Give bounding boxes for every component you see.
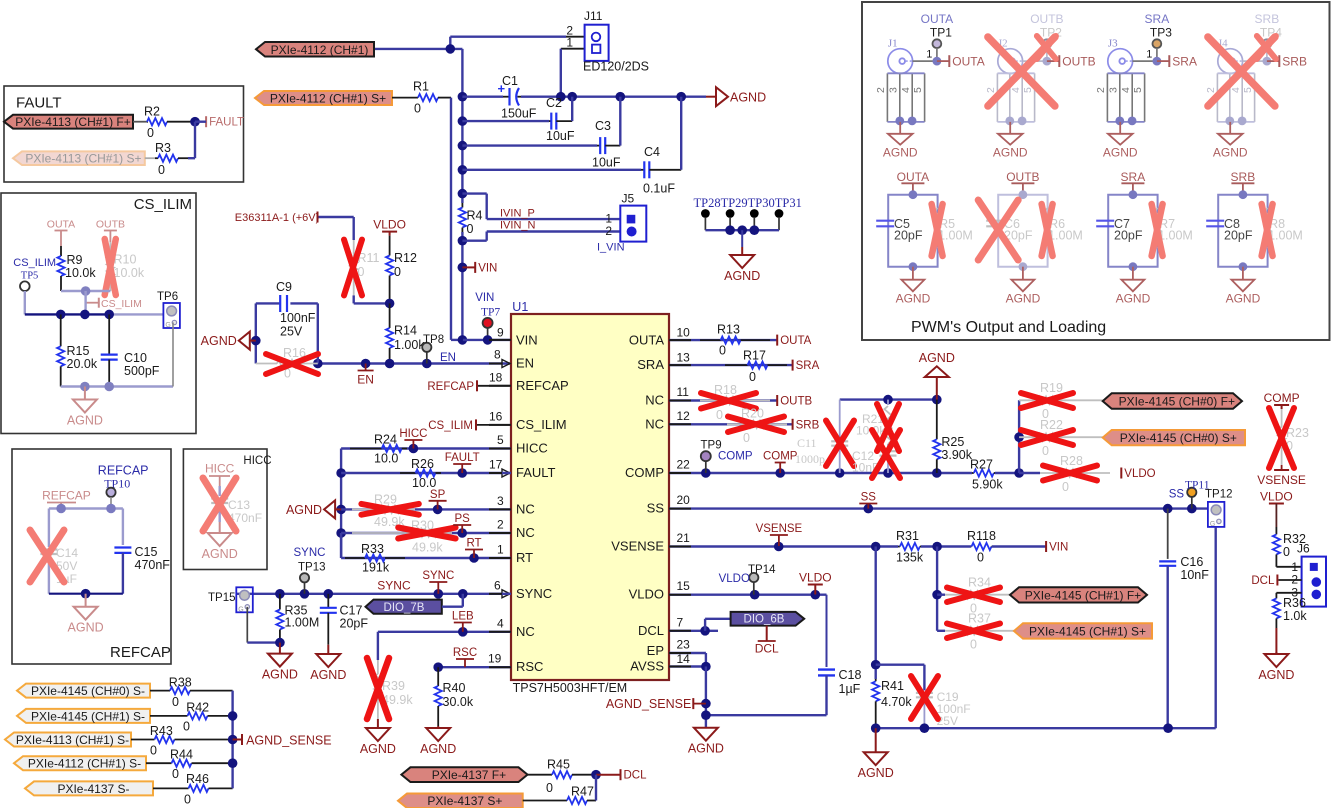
net label SRB — [793, 419, 820, 432]
ground AGND — [1258, 652, 1294, 682]
capacitor C10 — [101, 314, 160, 386]
svg-text:C16: C16 — [1180, 555, 1203, 569]
vertical VIN bus — [461, 49, 463, 203]
connector J3 coax — [1108, 38, 1133, 74]
svg-text:AGND: AGND — [420, 742, 456, 756]
svg-text:R42: R42 — [186, 700, 209, 714]
ground AGND — [912, 267, 914, 280]
svg-text:0: 0 — [158, 163, 165, 177]
svg-text:R45: R45 — [547, 758, 570, 772]
wire J3 shield to ground — [1115, 117, 1124, 126]
resistor R9 — [57, 246, 96, 291]
resistor R118 — [967, 529, 996, 565]
ground AGND — [858, 728, 894, 780]
svg-text:3: 3 — [887, 87, 899, 93]
resistor R29 — [352, 492, 415, 529]
ground AGND — [420, 726, 456, 756]
wire to J11 pin 2 — [449, 37, 451, 49]
svg-text:0: 0 — [1283, 545, 1290, 559]
wire R37 row — [937, 630, 945, 632]
not-populated X mark — [266, 354, 318, 374]
capacitor C17 — [320, 594, 369, 645]
junction dots on bus — [458, 92, 468, 102]
svg-text:TP15: TP15 — [208, 592, 236, 604]
wire to DIO_6B — [704, 619, 706, 631]
ground AGND — [360, 719, 396, 756]
ground AGND (left arrow) — [286, 500, 341, 518]
svg-text:R40: R40 — [443, 681, 466, 695]
test point TP5 — [20, 281, 30, 291]
resistor R5 ghost — [934, 208, 941, 248]
svg-text:AGND: AGND — [286, 503, 322, 517]
svg-text:COMP: COMP — [718, 451, 753, 463]
label PXIe-4113 (CH#1) S+ — [13, 151, 145, 165]
svg-text:OUTA: OUTA — [897, 170, 929, 184]
not-populated X mark — [398, 528, 455, 539]
not-populated X mark — [932, 204, 943, 256]
svg-text:R22: R22 — [1040, 418, 1063, 432]
svg-text:3.90k: 3.90k — [941, 448, 972, 462]
resistor R25 — [933, 400, 973, 473]
svg-text:OUTA: OUTA — [952, 54, 984, 68]
svg-text:E36311A-1 (+6V): E36311A-1 (+6V) — [235, 212, 319, 224]
svg-text:FAULT: FAULT — [445, 452, 480, 464]
resistor R36 — [1273, 593, 1308, 628]
net label VIN — [1046, 541, 1068, 554]
svg-text:23: 23 — [677, 638, 691, 652]
ground AGND — [1009, 122, 1011, 134]
net label VSENSE — [756, 523, 803, 546]
wire VSENSE row pin21 — [669, 545, 898, 547]
svg-text:R34: R34 — [968, 576, 991, 590]
svg-text:CS_ILIM: CS_ILIM — [13, 257, 56, 269]
bottom rail — [876, 727, 1216, 729]
svg-text:REFCAP: REFCAP — [516, 378, 569, 393]
ground AGND — [899, 122, 901, 134]
wire IVIN_P loop — [462, 192, 486, 194]
svg-text:R43: R43 — [150, 724, 173, 738]
svg-text:0: 0 — [719, 344, 726, 358]
resistor R38 — [150, 675, 233, 709]
net label REFCAP (pin 18) — [477, 385, 511, 387]
svg-text:1.0k: 1.0k — [1283, 609, 1307, 623]
collector bus — [231, 691, 233, 789]
svg-text:30.0k: 30.0k — [443, 695, 474, 709]
box FAULT — [4, 86, 244, 182]
svg-text:SRA: SRA — [1121, 170, 1146, 184]
svg-text:SYNC: SYNC — [294, 547, 326, 559]
svg-text:NC: NC — [516, 525, 535, 540]
svg-text:0: 0 — [147, 126, 154, 140]
svg-text:10.0: 10.0 — [374, 452, 398, 466]
svg-text:R4: R4 — [467, 209, 483, 223]
not-populated X mark — [105, 239, 116, 295]
wire VLDO to R32 — [1275, 504, 1277, 528]
wire J4 shield to ground — [1225, 117, 1234, 126]
resistor R32 — [1273, 527, 1306, 567]
net label VSENSE below R23 — [1274, 469, 1289, 471]
input arrow pin 8 — [502, 360, 510, 368]
wire TP10 down — [110, 497, 112, 509]
svg-text:10.0k: 10.0k — [65, 266, 96, 280]
ground AGND — [1022, 267, 1024, 280]
wire C4 up to rail — [680, 97, 682, 170]
svg-text:PXIe-4145 (CH#1) S+: PXIe-4145 (CH#1) S+ — [1029, 625, 1146, 639]
not-populated X mark — [361, 504, 418, 515]
svg-text:PXIe-4137 F+: PXIe-4137 F+ — [432, 768, 506, 782]
svg-text:AGND_SENSE: AGND_SENSE — [606, 697, 691, 711]
capacitor C16 — [1167, 509, 1169, 559]
svg-text:1000p: 1000p — [795, 452, 825, 466]
svg-text:0: 0 — [1062, 480, 1069, 494]
wire TP5 down — [24, 291, 26, 314]
svg-text:1.00M: 1.00M — [285, 616, 320, 630]
resistor R46 — [153, 772, 233, 807]
wire OUTA row pin10 — [669, 339, 777, 341]
svg-text:VIN: VIN — [1049, 542, 1068, 554]
svg-text:VSENSE: VSENSE — [1257, 473, 1306, 487]
svg-text:G: G — [238, 606, 243, 613]
svg-text:5: 5 — [497, 433, 504, 447]
svg-text:PXIe-4145 (CH#1) S-: PXIe-4145 (CH#1) S- — [31, 709, 145, 723]
resistor R22 — [1019, 418, 1103, 458]
not-populated X mark — [203, 478, 236, 531]
svg-text:AGND: AGND — [1258, 668, 1294, 682]
not-populated X mark — [1257, 36, 1276, 59]
wire DCL row pin7 — [669, 630, 718, 632]
svg-text:SYNC: SYNC — [516, 586, 552, 601]
wire R9/R10 bottoms — [61, 290, 110, 292]
capacitor C7 — [1096, 220, 1114, 222]
wire bottom row — [49, 593, 123, 595]
test point TP1 — [933, 39, 942, 48]
junction — [446, 44, 456, 54]
net label FAULT — [445, 452, 480, 473]
svg-text:OUTB: OUTB — [96, 219, 125, 231]
svg-text:DIO_7B: DIO_7B — [384, 602, 425, 614]
svg-text:SRA: SRA — [1145, 12, 1170, 26]
svg-text:EN: EN — [516, 356, 534, 371]
svg-text:RT: RT — [466, 538, 481, 550]
svg-text:3: 3 — [497, 494, 504, 508]
svg-text:LEB: LEB — [452, 611, 474, 623]
svg-text:R13: R13 — [717, 323, 740, 337]
wire VIN row to IC pin 9 — [463, 339, 511, 341]
not-populated X mark — [1262, 204, 1273, 256]
svg-text:6: 6 — [494, 579, 501, 593]
svg-text:R33: R33 — [361, 542, 384, 556]
svg-text:1: 1 — [926, 49, 932, 61]
svg-text:0.1uF: 0.1uF — [643, 182, 675, 196]
ground AGND (left arrow) — [201, 332, 256, 350]
label PXIe-4145 (CH#1) S- — [17, 709, 150, 724]
svg-text:C13: C13 — [228, 498, 250, 512]
resistor R2 — [144, 104, 195, 140]
pin numbers left — [488, 325, 504, 665]
svg-text:5: 5 — [1132, 87, 1144, 93]
svg-text:AGND: AGND — [201, 334, 237, 348]
svg-text:REFCAP: REFCAP — [98, 464, 149, 478]
svg-text:TP12: TP12 — [1205, 489, 1233, 501]
ground AGND — [1132, 267, 1134, 280]
label PXIe-4145 (CH#0) S+ — [1103, 430, 1245, 445]
svg-text:SS: SS — [647, 501, 665, 516]
svg-text:C9: C9 — [276, 280, 292, 294]
wire F+ to R2 — [133, 121, 148, 123]
svg-text:1.00k: 1.00k — [394, 338, 425, 352]
svg-text:AVSS: AVSS — [630, 659, 664, 674]
svg-text:2: 2 — [605, 224, 612, 238]
wire down to R34/R37 — [936, 547, 938, 631]
resistor R14 — [386, 303, 425, 363]
svg-text:2: 2 — [1095, 87, 1107, 93]
box CS_ILIM — [1, 193, 196, 434]
label PXIe-4112 (CH#1) — [256, 42, 374, 57]
svg-text:21: 21 — [677, 531, 691, 545]
net label OUTA — [47, 219, 75, 247]
svg-text:AGND: AGND — [1213, 145, 1248, 159]
label PXIe-4137 S- — [25, 781, 153, 796]
wire R32 to J6 pin1 — [1276, 566, 1301, 568]
svg-text:11: 11 — [677, 385, 690, 399]
svg-text:19: 19 — [488, 652, 502, 666]
net label COMP — [763, 451, 798, 474]
wire C2 row — [462, 120, 549, 122]
svg-text:R25: R25 — [941, 435, 964, 449]
test point TP7 — [481, 307, 500, 328]
svg-text:12: 12 — [677, 409, 691, 423]
svg-text:CS_ILIM: CS_ILIM — [516, 417, 567, 432]
svg-text:PXIe-4112 (CH#1) S+: PXIe-4112 (CH#1) S+ — [270, 92, 386, 106]
svg-text:R14: R14 — [394, 324, 417, 338]
svg-text:R31: R31 — [896, 529, 919, 543]
label PXIe-4112 (CH#1) S- — [14, 756, 146, 771]
svg-text:PXIe-4137 S+: PXIe-4137 S+ — [427, 794, 502, 808]
not-populated X mark — [1152, 204, 1163, 256]
svg-text:PXIe-4145 (CH#0) F+: PXIe-4145 (CH#0) F+ — [1119, 395, 1235, 409]
capacitor C8 — [1206, 220, 1224, 222]
svg-text:ED120/2DS: ED120/2DS — [583, 60, 649, 74]
svg-text:SRB: SRB — [1231, 170, 1256, 184]
wire R9 bottom to row — [84, 291, 86, 314]
resistor R37 — [945, 612, 1014, 652]
left bus vertical — [340, 449, 342, 559]
wire TP28-31 common — [705, 229, 779, 231]
svg-text:EN: EN — [440, 352, 456, 364]
resistor R40 — [435, 667, 474, 726]
box REFCAP — [12, 449, 171, 664]
label PXIe-4137 F+ — [401, 767, 527, 782]
wire PXIe-4112 (CH#1) to bus — [374, 48, 462, 50]
wire J1 pin 1 — [913, 60, 937, 62]
svg-text:25V: 25V — [280, 325, 303, 339]
wire J3 pin 1 — [1133, 60, 1157, 62]
svg-text:EP: EP — [647, 643, 664, 658]
svg-text:OUTB: OUTB — [1006, 170, 1039, 184]
svg-text:DIO_6B: DIO_6B — [744, 614, 785, 626]
not-populated X mark — [701, 393, 756, 409]
wire loading loop — [1108, 195, 1157, 267]
svg-text:AGND: AGND — [67, 414, 103, 428]
wire down to R39 — [377, 632, 379, 660]
svg-text:DCL: DCL — [1251, 575, 1275, 587]
wire NC11 row OUTB — [669, 399, 777, 401]
wire IVIN_N loop — [487, 230, 621, 232]
capacitor C1 (polarized) — [498, 74, 537, 121]
svg-text:20pF: 20pF — [340, 617, 369, 631]
svg-text:NC: NC — [516, 624, 535, 639]
wire EP pin23 — [669, 652, 706, 654]
svg-text:J11: J11 — [584, 9, 603, 23]
net label DCL below flag — [766, 626, 768, 641]
resistor R19 — [1019, 381, 1103, 421]
net label CS_ILIM (pin 16) — [476, 424, 511, 426]
ground AGND — [67, 387, 103, 428]
resistor R21 ghost — [887, 400, 889, 405]
svg-text:CS_ILIM: CS_ILIM — [428, 420, 473, 432]
svg-text:4: 4 — [1120, 87, 1132, 93]
wire COMP row pin22 — [669, 472, 972, 474]
svg-text:C3: C3 — [595, 119, 611, 133]
not-populated X mark — [1269, 408, 1294, 468]
wire HICC row — [341, 447, 511, 449]
svg-text:R19: R19 — [1040, 381, 1063, 395]
wire SS row pin20 — [669, 507, 1208, 509]
resistor R42 — [150, 700, 233, 733]
wire NC12 row SRB — [669, 423, 793, 425]
power flag VLDO — [1260, 490, 1293, 504]
wire R28 row — [1019, 472, 1040, 474]
capacitor C6 — [986, 220, 1004, 222]
power flag VLDO — [799, 571, 832, 595]
net name VIN flag — [458, 263, 468, 273]
svg-text:AGND: AGND — [688, 742, 724, 756]
resistor R28 — [1040, 454, 1110, 494]
not-populated X mark — [978, 200, 1018, 260]
capacitor C5 — [876, 220, 894, 222]
svg-text:8: 8 — [494, 348, 501, 362]
svg-text:0: 0 — [414, 102, 421, 116]
net label LEB — [452, 611, 474, 632]
connector J1 shield pins — [875, 73, 925, 122]
svg-text:HICC: HICC — [243, 455, 271, 467]
net label AGND_SENSE — [233, 739, 242, 741]
power flag VLDO — [373, 218, 406, 236]
svg-text:OUTA: OUTA — [629, 332, 664, 347]
input arrow pin 17 — [502, 469, 510, 477]
svg-text:AGND: AGND — [896, 291, 931, 305]
box PWM's Output and Loading — [862, 2, 1330, 340]
resistor R45 — [528, 758, 597, 796]
test point TP4 — [1263, 39, 1272, 48]
ground AGND — [724, 247, 760, 283]
svg-text:PXIe-4145 (CH#0) S+: PXIe-4145 (CH#0) S+ — [1120, 431, 1237, 445]
svg-text:TP3: TP3 — [1150, 26, 1172, 40]
wire EN row — [318, 362, 511, 364]
svg-text:VLDO: VLDO — [799, 571, 832, 585]
resistor R16 — [256, 346, 318, 381]
wire top row — [49, 507, 123, 509]
test point TP8 — [422, 334, 444, 352]
svg-text:0: 0 — [184, 793, 191, 807]
resistor R30 — [352, 518, 452, 554]
svg-text:191k: 191k — [362, 561, 390, 575]
svg-text:4: 4 — [1010, 87, 1022, 93]
svg-text:AGND: AGND — [310, 668, 346, 682]
net label SRB tick — [1267, 60, 1279, 62]
wire J2 pin 1 — [1023, 60, 1047, 62]
wire TP6 down leg — [172, 323, 174, 387]
svg-text:SRA: SRA — [796, 360, 820, 372]
test point TP14 — [748, 564, 776, 582]
svg-text:R44: R44 — [170, 748, 193, 762]
svg-text:C11: C11 — [797, 436, 817, 450]
resistor R1 — [392, 79, 451, 115]
wire loading loop — [1218, 195, 1267, 267]
connector J1 coax — [888, 38, 913, 74]
svg-text:TP6: TP6 — [157, 291, 178, 303]
svg-text:2: 2 — [985, 87, 997, 93]
svg-text:R46: R46 — [186, 772, 209, 786]
flag DIO_7B — [366, 600, 442, 614]
svg-text:TP14: TP14 — [748, 564, 776, 576]
svg-text:AGND: AGND — [858, 766, 894, 780]
resistor R13 — [700, 323, 770, 358]
resistor R17 — [725, 349, 787, 385]
svg-text:500pF: 500pF — [124, 364, 160, 378]
svg-text:C10: C10 — [124, 351, 147, 365]
svg-text:R118: R118 — [967, 529, 996, 543]
svg-text:9: 9 — [497, 325, 504, 339]
svg-text:AGND: AGND — [993, 145, 1028, 159]
svg-text:NC: NC — [645, 416, 664, 431]
svg-text:AGND: AGND — [1006, 291, 1041, 305]
svg-text:VLDO: VLDO — [373, 218, 406, 232]
net label SS — [859, 492, 877, 509]
not-populated X mark — [872, 430, 900, 478]
svg-text:OUTA: OUTA — [47, 219, 75, 231]
wire S+ to R3 — [145, 157, 155, 159]
net label CS_ILIM — [428, 419, 476, 432]
wire J11 pin1 to AGND rail — [561, 48, 585, 50]
wire to C19 — [876, 664, 925, 666]
svg-text:SRA: SRA — [1172, 54, 1197, 68]
net label RT — [465, 538, 483, 559]
svg-text:RSC: RSC — [516, 659, 543, 674]
svg-text:SP: SP — [430, 489, 446, 501]
svg-text:R23: R23 — [1286, 426, 1309, 440]
resistor R8 ghost — [1264, 208, 1271, 248]
svg-text:OUTA: OUTA — [921, 12, 953, 26]
net label DCL — [1251, 575, 1277, 588]
capacitor C3 — [595, 119, 620, 154]
not-populated X mark — [1021, 393, 1073, 408]
svg-text:R47: R47 — [571, 785, 594, 799]
ground AGND — [202, 522, 238, 561]
svg-text:150uF: 150uF — [501, 107, 537, 121]
svg-text:SYNC: SYNC — [377, 579, 411, 593]
svg-text:1: 1 — [1146, 49, 1152, 61]
svg-text:AGND: AGND — [1103, 145, 1138, 159]
ground AGND — [1119, 122, 1121, 134]
svg-text:PXIe-4145 (CH#1) F+: PXIe-4145 (CH#1) F+ — [1025, 588, 1141, 602]
svg-text:R12: R12 — [394, 251, 417, 265]
connector J4 coax — [1218, 38, 1243, 74]
connector J2 coax — [998, 38, 1023, 74]
svg-text:R1: R1 — [413, 79, 429, 93]
svg-text:AGND: AGND — [360, 742, 396, 756]
svg-text:AGND: AGND — [883, 145, 918, 159]
